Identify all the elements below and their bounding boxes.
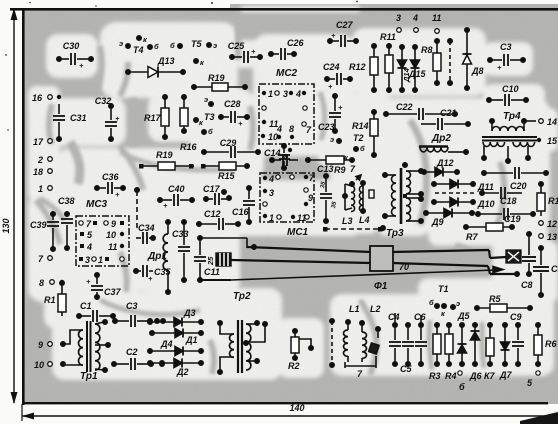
- svg-text:10: 10: [106, 230, 116, 240]
- coil L4: [356, 175, 374, 225]
- svg-text:R3: R3: [429, 371, 441, 381]
- capacitor C5: [400, 323, 414, 374]
- svg-text:Д3: Д3: [183, 308, 196, 318]
- dashed link: [435, 192, 475, 194]
- capacitor C22: [384, 102, 457, 120]
- pin 16: [32, 93, 61, 103]
- resistor R10 edge: [537, 182, 558, 216]
- svg-text:C26: C26: [287, 38, 305, 48]
- pin 8: [39, 278, 64, 288]
- pin 4 top: [412, 13, 418, 32]
- pin 2: [37, 155, 52, 165]
- capacitor C15: [270, 154, 298, 166]
- svg-text:4: 4: [295, 89, 301, 99]
- resistor R12: [349, 44, 378, 92]
- svg-text:11: 11: [432, 13, 441, 23]
- svg-text:3: 3: [269, 188, 274, 198]
- dimension line left (130): [13, 10, 15, 403]
- capacitor C9: [510, 312, 524, 366]
- capacitor C39: [30, 212, 59, 251]
- dashed link bottom: [330, 319, 334, 367]
- svg-text:C27: C27: [336, 20, 354, 30]
- diode D7: [499, 323, 512, 380]
- capacitor C34: [136, 223, 155, 244]
- svg-text:18: 18: [33, 167, 43, 177]
- svg-text:14: 14: [547, 117, 557, 127]
- svg-text:16: 16: [32, 93, 43, 103]
- resistor R14: [352, 110, 378, 157]
- pin b bottom: [458, 371, 465, 392]
- svg-text:12: 12: [547, 219, 557, 229]
- svg-text:+: +: [115, 114, 120, 123]
- svg-text:8: 8: [39, 278, 44, 288]
- dashed link C36 to C34: [135, 188, 139, 228]
- svg-text:C28: C28: [224, 99, 241, 109]
- resistor R9: [284, 151, 356, 175]
- capacitor C16: [232, 186, 255, 224]
- svg-text:+: +: [163, 201, 168, 210]
- svg-text:R19: R19: [208, 73, 225, 83]
- gray veins over blobs: [36, 26, 504, 375]
- svg-text:э: э: [456, 299, 460, 308]
- svg-text:Т1: Т1: [438, 284, 449, 294]
- svg-text:C24: C24: [323, 62, 340, 72]
- svg-text:Д8: Д8: [471, 66, 484, 76]
- svg-text:Д15: Д15: [408, 69, 427, 79]
- svg-text:Д7: Д7: [499, 370, 512, 380]
- capacitor C28: [219, 99, 249, 128]
- svg-text:C3: C3: [126, 301, 138, 311]
- svg-text:Д11: Д11: [477, 182, 494, 192]
- svg-text:+: +: [86, 277, 91, 286]
- svg-text:2: 2: [37, 155, 43, 165]
- svg-text:R14: R14: [352, 121, 369, 131]
- board left border: [22, 8, 25, 405]
- svg-text:C35: C35: [154, 267, 172, 277]
- dimension line bottom (140): [22, 415, 558, 417]
- svg-text:+: +: [238, 119, 243, 128]
- svg-text:б: б: [208, 127, 213, 136]
- svg-text:+: +: [148, 274, 153, 283]
- svg-text:R17: R17: [144, 113, 162, 123]
- svg-text:C10: C10: [502, 84, 519, 94]
- inductor Dr1: [147, 220, 170, 294]
- svg-text:Т2: Т2: [353, 133, 364, 143]
- svg-text:Т5: Т5: [191, 39, 202, 49]
- svg-text:C39: C39: [30, 220, 47, 230]
- transformer Tr4: [482, 111, 537, 163]
- svg-text:+: +: [331, 31, 336, 40]
- svg-text:Т3: Т3: [204, 112, 215, 122]
- capacitor C36: [95, 172, 125, 199]
- svg-text:б: б: [360, 144, 365, 153]
- svg-text:Д4: Д4: [160, 339, 173, 349]
- svg-text:25: 25: [206, 256, 215, 266]
- svg-text:130: 130: [1, 218, 11, 233]
- corner artifact bottom right: [520, 412, 558, 424]
- pin 12: [539, 219, 557, 229]
- capacitor C23: [318, 94, 343, 133]
- resistor R17: [144, 95, 169, 139]
- capacitor C35: [134, 265, 172, 283]
- svg-text:э: э: [119, 39, 123, 48]
- resistor R8: [421, 39, 441, 85]
- svg-text:Тр2: Тр2: [233, 291, 251, 302]
- svg-text:Тр4: Тр4: [503, 111, 521, 122]
- svg-text:13: 13: [547, 232, 557, 242]
- pin 3 top: [396, 13, 401, 32]
- diode D10: [432, 198, 495, 210]
- svg-text:4: 4: [276, 124, 282, 134]
- svg-text:C13: C13: [317, 164, 334, 174]
- pin 18: [33, 167, 52, 177]
- pin 11 top: [432, 13, 441, 33]
- trim bracket 7: [345, 356, 376, 379]
- coil L2: [360, 304, 381, 362]
- resistor R19: [192, 73, 247, 91]
- capacitor C33: [172, 220, 190, 282]
- transformer Tr3: [383, 163, 423, 239]
- capacitor C26: [269, 38, 305, 60]
- resistor R11: [380, 32, 396, 92]
- capacitor C14: [264, 144, 290, 170]
- svg-text:+: +: [79, 61, 84, 70]
- resistor R7: [464, 223, 514, 242]
- capacitor C3: [488, 42, 525, 72]
- svg-text:C40: C40: [168, 184, 185, 194]
- diode D6: [469, 323, 482, 381]
- coil L1: [344, 304, 360, 362]
- svg-text:4: 4: [268, 174, 274, 184]
- svg-text:8: 8: [289, 124, 294, 134]
- svg-text:МС2: МС2: [276, 68, 298, 79]
- svg-text:C23: C23: [318, 122, 335, 132]
- svg-text:К7: К7: [484, 371, 496, 381]
- resistor R1: [44, 281, 66, 316]
- svg-text:б: б: [429, 298, 434, 307]
- transformer Tr2: [218, 291, 267, 374]
- pin 10: [34, 360, 65, 370]
- capacitor C25: [228, 41, 262, 63]
- capacitor C2: [112, 347, 164, 370]
- svg-text:+: +: [497, 63, 502, 72]
- capacitor C1: [77, 301, 115, 322]
- svg-text:C22: C22: [396, 102, 413, 112]
- svg-text:1: 1: [38, 184, 43, 194]
- svg-text:C37: C37: [104, 287, 122, 297]
- svg-text:R15: R15: [218, 171, 236, 181]
- svg-text:C31: C31: [70, 113, 87, 123]
- svg-text:3: 3: [396, 13, 401, 23]
- capacitor C17: [203, 184, 231, 205]
- capacitor C19: [476, 208, 535, 224]
- svg-text:C38: C38: [58, 196, 75, 206]
- svg-text:C12: C12: [204, 209, 221, 219]
- diode D15: [408, 45, 427, 92]
- diode D8: [463, 28, 484, 90]
- svg-text:C3: C3: [500, 42, 512, 52]
- resistor R5: [475, 294, 532, 312]
- svg-text:C1: C1: [80, 301, 92, 311]
- transistor T2 pins: [330, 133, 365, 162]
- cable top: [247, 247, 506, 258]
- svg-text:3: 3: [85, 255, 90, 265]
- diode D13: [126, 56, 185, 78]
- capacitor C24: [323, 62, 352, 91]
- pin 17: [33, 137, 52, 147]
- svg-text:15: 15: [547, 136, 558, 146]
- resistor R4: [445, 323, 457, 381]
- svg-text:140: 140: [289, 403, 304, 413]
- coil L3: [342, 182, 355, 226]
- svg-text:C25: C25: [228, 41, 246, 51]
- capacitor C6: [414, 312, 427, 366]
- capacitor C11: [194, 236, 220, 282]
- antenna jack box: [506, 250, 521, 263]
- svg-text:Д5: Д5: [457, 311, 470, 321]
- svg-text:C21: C21: [440, 108, 457, 118]
- svg-text:R5: R5: [489, 294, 501, 304]
- svg-text:б: б: [170, 41, 175, 50]
- svg-text:+: +: [251, 47, 256, 56]
- svg-text:МС3: МС3: [86, 199, 108, 210]
- capacitor C32: [95, 96, 120, 141]
- svg-text:C1: C1: [551, 264, 558, 274]
- svg-text:C34: C34: [138, 223, 155, 233]
- pin 5 bottom: [527, 371, 540, 388]
- svg-text:70: 70: [399, 262, 409, 272]
- capacitor C13: [317, 164, 338, 223]
- svg-text:C17: C17: [203, 184, 221, 194]
- cable bottom with arrow: [200, 267, 503, 281]
- svg-text:R8: R8: [421, 45, 433, 55]
- svg-text:Тр3: Тр3: [386, 228, 404, 239]
- svg-text:R16: R16: [180, 142, 198, 152]
- svg-text:4: 4: [412, 13, 418, 23]
- coax junction box: [206, 253, 231, 266]
- dashed link L3L4: [323, 226, 385, 232]
- svg-text:9: 9: [111, 219, 116, 229]
- resistor R6: [534, 323, 557, 366]
- capacitor C38: [58, 196, 75, 250]
- transistor T1 pins: [429, 284, 460, 318]
- diode D14: [398, 45, 412, 92]
- capacitor C30: [57, 41, 93, 70]
- resistor R19 lower: [139, 150, 194, 170]
- capacitor C21: [421, 108, 470, 130]
- transformer Tr1: [61, 320, 110, 382]
- svg-text:б: б: [154, 42, 159, 51]
- diode D3: [148, 308, 203, 327]
- svg-text:L2: L2: [370, 304, 381, 314]
- capacitor C12: [197, 209, 240, 230]
- svg-text:4: 4: [86, 242, 92, 252]
- pin 13: [539, 232, 557, 242]
- capacitor C20: [482, 167, 548, 191]
- capacitor C3 lower: [113, 301, 165, 327]
- filter F1: [370, 246, 409, 292]
- resistor R2: [288, 329, 313, 371]
- diode D1: [150, 329, 203, 346]
- svg-text:C20: C20: [510, 181, 527, 191]
- svg-text:R2: R2: [288, 361, 300, 371]
- svg-text:17: 17: [33, 137, 44, 147]
- svg-text:R9: R9: [334, 165, 346, 175]
- svg-text:R1: R1: [44, 295, 56, 305]
- svg-text:б: б: [459, 382, 465, 392]
- resistor R3: [429, 323, 441, 381]
- svg-text:+: +: [338, 103, 343, 112]
- svg-text:1: 1: [98, 255, 103, 265]
- capacitor C27: [328, 20, 358, 47]
- svg-text:Тр1: Тр1: [80, 371, 98, 382]
- svg-text:Ф1: Ф1: [374, 281, 388, 292]
- svg-text:э: э: [213, 41, 217, 50]
- svg-text:Д12: Д12: [436, 158, 454, 168]
- svg-text:Др2: Др2: [431, 133, 451, 144]
- svg-text:C8: C8: [521, 280, 533, 290]
- diode D12: [422, 158, 459, 177]
- svg-text:э: э: [330, 135, 334, 144]
- board bottom border: [22, 402, 548, 404]
- svg-text:L1: L1: [349, 304, 360, 314]
- svg-text:C19: C19: [504, 214, 521, 224]
- svg-text:C4: C4: [388, 312, 400, 322]
- pin 1: [38, 184, 52, 194]
- svg-text:Д2: Д2: [176, 367, 189, 377]
- svg-text:1: 1: [268, 89, 273, 99]
- svg-text:C36: C36: [102, 172, 120, 182]
- capacitor C10: [487, 84, 528, 106]
- svg-text:C33: C33: [172, 229, 189, 239]
- capacitor C40: [158, 184, 194, 210]
- svg-text:Д13: Д13: [157, 56, 175, 66]
- resistor R16: [180, 95, 198, 152]
- svg-text:+: +: [115, 190, 120, 199]
- diode D9: [424, 209, 474, 228]
- IC MC2: [259, 68, 314, 152]
- dashed link right of R8: [448, 39, 452, 85]
- IC MC3: [76, 199, 129, 266]
- svg-text:C2: C2: [126, 347, 138, 357]
- diode D2: [148, 359, 203, 378]
- svg-text:R6: R6: [545, 339, 557, 349]
- svg-text:Д1: Д1: [185, 335, 198, 345]
- svg-text:R19: R19: [156, 150, 173, 160]
- svg-text:R7: R7: [466, 232, 478, 242]
- cable middle: [231, 260, 519, 276]
- svg-text:C14: C14: [264, 148, 281, 158]
- svg-text:C29: C29: [220, 138, 237, 148]
- capacitor C29: [202, 138, 260, 158]
- svg-text:11: 11: [108, 242, 117, 252]
- capacitor C4: [388, 312, 401, 366]
- capacitor C18: [480, 187, 522, 206]
- diode D11: [432, 180, 494, 193]
- svg-text:э: э: [204, 95, 208, 104]
- transistor T3 pins: [194, 95, 215, 136]
- resistor R15: [201, 162, 249, 181]
- svg-text:R12: R12: [349, 62, 366, 72]
- inductor Dr2: [419, 133, 468, 154]
- capacitor C8: [521, 232, 536, 290]
- pin 14: [539, 117, 557, 127]
- svg-text:C30: C30: [63, 41, 80, 51]
- svg-text:C16: C16: [232, 207, 250, 217]
- capacitor C31: [53, 104, 87, 141]
- svg-text:C18: C18: [500, 196, 517, 206]
- transistor T5 pins: [170, 39, 217, 67]
- svg-text:R11: R11: [380, 32, 396, 42]
- svg-text:Д9: Д9: [431, 217, 444, 227]
- diode D4: [148, 339, 203, 356]
- svg-text:Т4: Т4: [133, 45, 144, 55]
- svg-text:R4: R4: [445, 371, 457, 381]
- svg-text:C11: C11: [204, 267, 220, 277]
- svg-text:9: 9: [308, 193, 313, 203]
- svg-text:L3: L3: [342, 216, 353, 226]
- svg-text:9: 9: [38, 340, 43, 350]
- capacitor C12 edge: [533, 246, 558, 297]
- svg-text:10: 10: [34, 360, 44, 370]
- svg-text:L4: L4: [359, 215, 370, 225]
- pin 9: [38, 340, 65, 350]
- diode D5: [457, 311, 470, 366]
- transistor T4 pins: [119, 35, 159, 55]
- board top border: [10, 8, 558, 11]
- wire C11 to cable: [200, 238, 256, 249]
- resistor K7: [484, 323, 496, 381]
- capacitor C37: [86, 273, 122, 299]
- pin 15: [537, 136, 558, 146]
- svg-text:Д10: Д10: [477, 199, 495, 209]
- pin 7: [38, 254, 52, 264]
- IC MC1: [260, 173, 315, 238]
- svg-text:+: +: [328, 82, 333, 91]
- svg-text:МС1: МС1: [287, 227, 309, 238]
- dust specks: [5, 1, 358, 131]
- svg-text:3: 3: [283, 89, 288, 99]
- svg-text:C9: C9: [510, 312, 522, 322]
- svg-text:R1: R1: [548, 196, 558, 206]
- svg-text:1: 1: [269, 213, 274, 223]
- svg-text:Д6: Д6: [469, 371, 482, 381]
